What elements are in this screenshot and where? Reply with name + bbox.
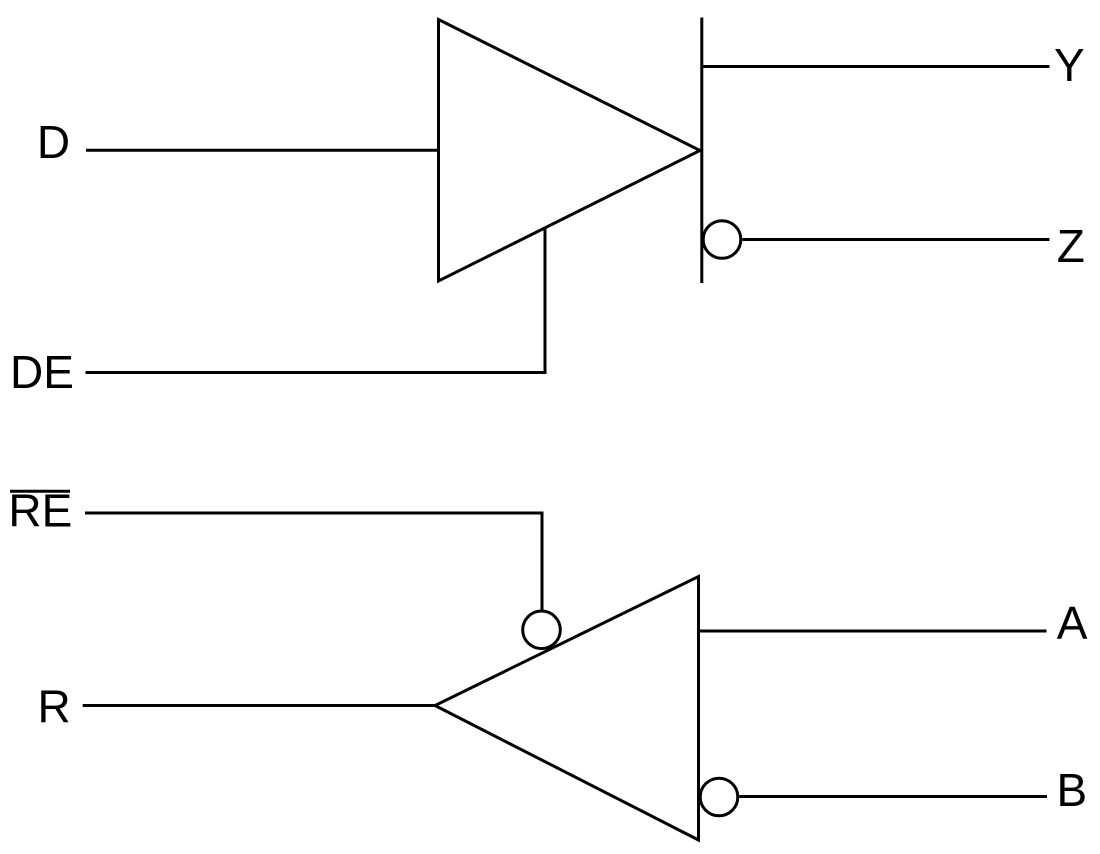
wire RE horizontal (85, 512, 544, 515)
driver output bar (700, 18, 703, 284)
wire A input (700, 630, 1047, 633)
svg-text:R: R (38, 681, 71, 733)
wire Z output (742, 238, 1049, 241)
label RE overline (10, 490, 70, 493)
receiver U2 triangle (435, 577, 699, 841)
svg-text:B: B (1057, 764, 1088, 816)
inversion bubble RE enable (523, 611, 561, 649)
svg-text:D: D (37, 116, 70, 168)
wire DE horizontal (86, 371, 547, 374)
driver U1 triangle (439, 20, 701, 282)
wire RE vertical (541, 515, 544, 611)
svg-text:Y: Y (1054, 39, 1085, 91)
wire B input (739, 795, 1047, 798)
svg-text:Z: Z (1057, 220, 1085, 272)
wire R output (83, 704, 435, 707)
wire Y output (702, 65, 1050, 68)
wire DE vertical (544, 229, 547, 374)
wire D input (86, 149, 439, 152)
svg-text:A: A (1057, 597, 1088, 649)
inversion bubble Z (703, 221, 741, 259)
svg-text:DE: DE (10, 346, 74, 398)
svg-text:RE: RE (8, 484, 72, 536)
inversion bubble B (700, 778, 738, 816)
